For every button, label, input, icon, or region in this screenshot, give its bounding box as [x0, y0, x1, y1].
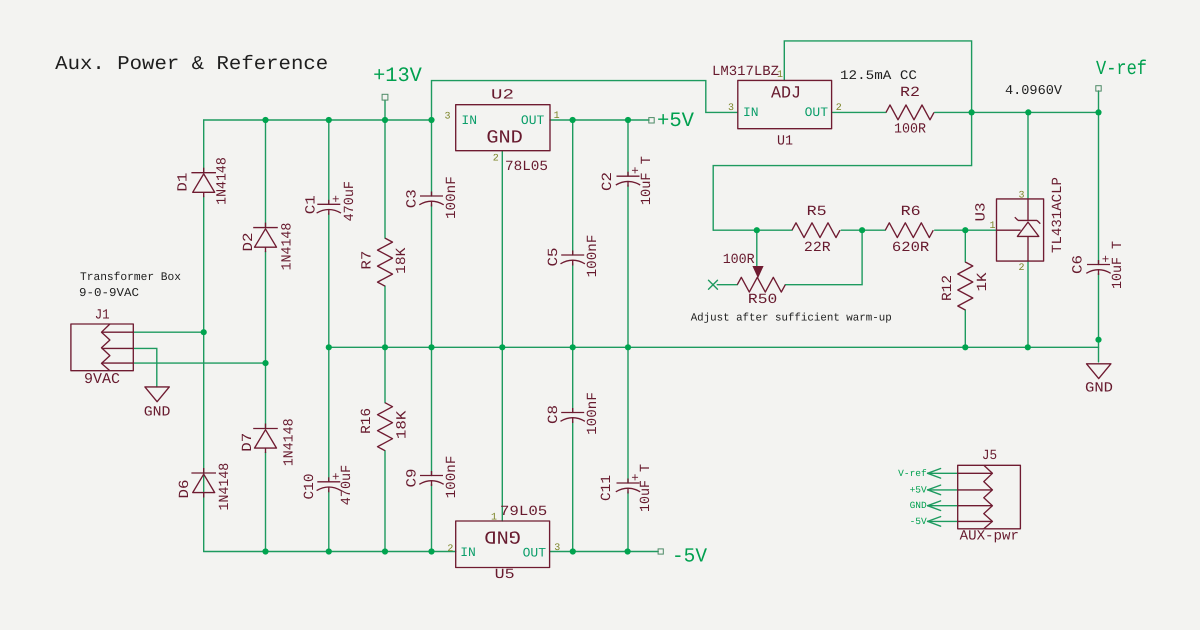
svg-text:1: 1	[554, 111, 560, 122]
svg-text:LM317LBZ: LM317LBZ	[712, 64, 779, 80]
svg-text:C10: C10	[302, 474, 318, 500]
svg-text:D1: D1	[175, 173, 191, 192]
svg-text:C9: C9	[405, 469, 421, 488]
svg-text:9VAC: 9VAC	[84, 371, 120, 388]
svg-text:R16: R16	[359, 408, 375, 434]
svg-text:1N4148: 1N4148	[280, 223, 296, 271]
svg-text:1K: 1K	[975, 272, 991, 292]
svg-text:1: 1	[989, 221, 995, 232]
svg-text:1N4148: 1N4148	[215, 157, 231, 205]
svg-text:9-0-9VAC: 9-0-9VAC	[79, 286, 139, 300]
svg-text:470uF: 470uF	[339, 465, 355, 505]
svg-text:18K: 18K	[395, 410, 411, 439]
svg-text:V-ref: V-ref	[898, 468, 927, 479]
svg-text:2: 2	[493, 154, 499, 165]
svg-text:U1: U1	[777, 134, 793, 150]
svg-text:GND: GND	[144, 405, 171, 421]
svg-text:R5: R5	[807, 204, 827, 220]
svg-text:12.5mA CC: 12.5mA CC	[840, 68, 917, 83]
svg-text:2: 2	[836, 103, 842, 114]
svg-text:10uF T: 10uF T	[1110, 241, 1126, 289]
svg-text:-5V: -5V	[910, 516, 927, 527]
svg-text:2: 2	[447, 544, 453, 555]
svg-text:GND: GND	[1085, 381, 1113, 397]
svg-text:10uF T: 10uF T	[638, 464, 654, 512]
svg-text:3: 3	[1018, 191, 1024, 202]
svg-text:C1: C1	[303, 195, 319, 214]
svg-text:+: +	[332, 193, 340, 207]
svg-text:1N4148: 1N4148	[217, 463, 233, 511]
svg-text:100nF: 100nF	[444, 456, 460, 499]
svg-text:620R: 620R	[892, 240, 930, 256]
svg-text:GND: GND	[910, 500, 927, 511]
svg-text:IN: IN	[743, 105, 759, 120]
svg-text:3: 3	[444, 111, 450, 122]
svg-text:R2: R2	[900, 85, 920, 101]
svg-text:Aux. Power & Reference: Aux. Power & Reference	[55, 53, 328, 75]
svg-text:C8: C8	[546, 405, 562, 424]
svg-text:10uF T: 10uF T	[639, 156, 655, 205]
svg-text:1N4148: 1N4148	[281, 418, 297, 466]
svg-text:OUT: OUT	[805, 105, 829, 120]
svg-text:R6: R6	[901, 204, 921, 220]
svg-text:J5: J5	[982, 448, 997, 464]
svg-text:22R: 22R	[804, 240, 831, 256]
svg-text:V-ref: V-ref	[1096, 58, 1147, 81]
svg-text:U5: U5	[495, 567, 515, 583]
svg-text:GND: GND	[484, 525, 521, 546]
svg-text:2: 2	[1018, 263, 1024, 274]
svg-text:3: 3	[728, 103, 734, 114]
svg-text:1: 1	[491, 513, 497, 524]
svg-text:+5V: +5V	[657, 110, 695, 133]
svg-text:ADJ: ADJ	[771, 85, 801, 104]
svg-text:4.0960V: 4.0960V	[1005, 84, 1063, 99]
svg-text:100nF: 100nF	[585, 392, 601, 435]
svg-text:100nF: 100nF	[444, 176, 460, 219]
svg-text:78L05: 78L05	[505, 159, 548, 175]
svg-text:OUT: OUT	[521, 113, 545, 128]
svg-text:AUX-pwr: AUX-pwr	[960, 529, 1019, 545]
svg-text:R7: R7	[359, 251, 375, 270]
svg-text:C3: C3	[405, 189, 421, 208]
svg-text:U3: U3	[974, 203, 990, 222]
svg-text:D2: D2	[241, 233, 257, 252]
svg-text:100nF: 100nF	[585, 235, 601, 278]
svg-text:J1: J1	[95, 308, 110, 324]
svg-text:Transformer Box: Transformer Box	[80, 271, 181, 284]
svg-text:U2: U2	[491, 88, 514, 104]
svg-text:Adjust after sufficient warm-u: Adjust after sufficient warm-up	[691, 312, 892, 324]
svg-text:+13V: +13V	[373, 65, 422, 88]
svg-text:-5V: -5V	[672, 546, 707, 569]
svg-text:R12: R12	[940, 275, 956, 301]
svg-text:470uF: 470uF	[342, 181, 358, 221]
svg-text:GND: GND	[486, 127, 523, 148]
svg-text:C11: C11	[599, 475, 615, 501]
svg-text:100R: 100R	[723, 252, 756, 268]
svg-text:IN: IN	[461, 113, 477, 128]
svg-text:D6: D6	[177, 480, 193, 499]
svg-text:100R: 100R	[894, 122, 927, 138]
svg-text:TL431ACLP: TL431ACLP	[1050, 177, 1066, 253]
svg-text:79L05: 79L05	[500, 504, 547, 520]
svg-text:3: 3	[554, 543, 560, 554]
svg-text:IN: IN	[460, 545, 476, 560]
svg-text:18K: 18K	[394, 247, 410, 274]
svg-text:+5V: +5V	[910, 484, 927, 495]
svg-text:OUT: OUT	[523, 546, 547, 561]
svg-text:+: +	[1102, 253, 1110, 267]
svg-text:C5: C5	[546, 248, 562, 267]
svg-text:D7: D7	[240, 433, 256, 452]
svg-text:C6: C6	[1071, 255, 1087, 274]
svg-text:+: +	[631, 165, 639, 179]
svg-text:C2: C2	[600, 172, 616, 191]
svg-text:R50: R50	[748, 292, 777, 308]
